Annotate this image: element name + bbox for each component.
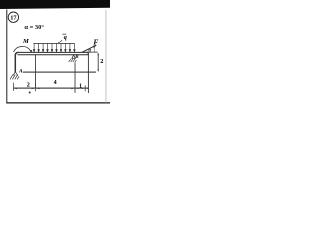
beam (horizontal bar outline)	[18, 52, 89, 54]
hatching at support A	[10, 75, 19, 80]
circled figure number 17	[8, 12, 18, 22]
svg-text:α = 30°: α = 30°	[24, 24, 44, 31]
force F arrowhead	[93, 45, 97, 48]
roller support B (triangle)	[72, 55, 76, 59]
dim tick at B	[74, 85, 77, 91]
svg-text:q: q	[64, 34, 67, 41]
moment arrowhead	[30, 50, 33, 53]
frame left border	[6, 10, 7, 104]
force F line	[82, 45, 97, 52]
stray dot	[29, 92, 31, 94]
pin support A	[13, 72, 18, 76]
distributed load top line	[34, 42, 75, 45]
base reference line from A level	[23, 72, 96, 73]
svg-text:A: A	[18, 69, 23, 75]
moment arc M	[14, 46, 31, 52]
svg-text:2: 2	[27, 81, 30, 88]
svg-text:4: 4	[54, 80, 57, 86]
angle arc	[93, 47, 96, 52]
vertical dimension line (2) right side	[97, 53, 99, 71]
frame bottom border	[6, 102, 110, 103]
hatching at support B	[69, 59, 77, 62]
dim tick at A	[12, 83, 15, 91]
svg-text:α: α	[88, 48, 91, 53]
dim tick at load start	[34, 83, 37, 91]
extension line from beam right end	[87, 52, 90, 93]
svg-text:B: B	[74, 55, 79, 60]
dim arrowheads	[14, 88, 88, 90]
angle reference line at corner	[86, 51, 98, 54]
left leg of frame with rounded corner	[15, 52, 18, 72]
svg-text:17: 17	[10, 14, 17, 21]
svg-text:M: M	[22, 38, 29, 45]
svg-text:2: 2	[100, 58, 103, 65]
extension line from load start to dimension line	[34, 55, 37, 88]
extension line below B	[74, 62, 77, 93]
svg-text:F: F	[93, 37, 98, 46]
distributed load arrows	[33, 43, 75, 52]
bottom dimension line	[13, 88, 88, 89]
dim tick at force point	[84, 85, 87, 91]
black header bar	[0, 0, 110, 9]
frame right border (faint)	[105, 10, 108, 103]
svg-text:1: 1	[79, 84, 82, 90]
